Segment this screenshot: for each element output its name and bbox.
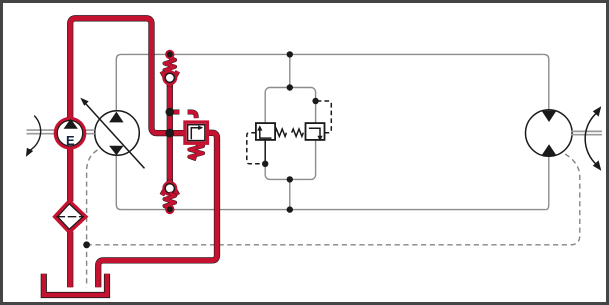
CV2 spring bbox=[165, 193, 175, 208]
check valve CV2 (bottom) bbox=[162, 181, 178, 209]
relief valve RV2 body bbox=[306, 123, 325, 140]
node RV1 pilot tap bbox=[262, 161, 268, 167]
pump group bbox=[26, 98, 145, 169]
node loop top bbox=[287, 84, 293, 90]
CV1 seat bbox=[162, 71, 178, 85]
wire filter line red bbox=[68, 149, 73, 287]
wire relief drain underlay bbox=[98, 133, 217, 287]
wire relief feed red bbox=[170, 131, 186, 136]
node CV2 bottom bbox=[165, 205, 174, 214]
wire pump case drain bbox=[87, 150, 98, 287]
left relief segment black bbox=[264, 140, 266, 164]
charge pump E bbox=[55, 119, 84, 148]
wire top bus left corner down to pump bbox=[116, 54, 121, 111]
motor output shaft bbox=[572, 131, 602, 134]
crossport relief valves block bbox=[247, 51, 331, 213]
tank T1 bbox=[44, 274, 107, 295]
node drain tee bbox=[83, 241, 90, 248]
wire pump bottom to bottom bus bbox=[116, 155, 121, 210]
black underlays bbox=[70, 18, 217, 287]
case drain dashed lines bbox=[87, 150, 580, 287]
wire charge supply underlay bbox=[70, 18, 170, 133]
filter F1 bbox=[55, 201, 86, 232]
wire charge vertical red bbox=[167, 85, 172, 182]
wire top bus right corner down to motor bbox=[544, 54, 549, 110]
shaft between pumps bbox=[85, 130, 95, 134]
motor rotation arrows bbox=[585, 113, 597, 166]
wire drain bottom run bbox=[87, 153, 580, 245]
motor M1 top triangle bbox=[542, 111, 557, 122]
CRV pilot dashed red bbox=[172, 112, 197, 121]
charge pump triangle bbox=[64, 119, 78, 129]
pump P1 top triangle bbox=[109, 112, 124, 123]
input shaft bbox=[27, 130, 56, 134]
CV1 poppet ball bbox=[164, 72, 176, 84]
CV2 seat bbox=[162, 181, 178, 195]
relief block loop bbox=[265, 88, 315, 180]
node pilot tap bbox=[166, 108, 175, 117]
wire charge supply red bbox=[70, 18, 170, 133]
wire top bus A bbox=[121, 53, 544, 55]
node RV2 pilot tap bbox=[312, 98, 318, 104]
check valve CV1 (top) bbox=[162, 57, 178, 85]
RV1 pilot line dashed bbox=[247, 133, 263, 164]
wire bottom bus B bbox=[121, 209, 546, 211]
node charge junction bbox=[166, 129, 175, 138]
wire bottom bus right corner up to motor bbox=[546, 156, 549, 209]
RV2 pilot line dashed bbox=[319, 101, 332, 133]
motor M1 circle bbox=[526, 110, 573, 157]
motor group bbox=[526, 106, 602, 170]
CRV body bbox=[185, 122, 207, 143]
pump P1 bottom triangle bbox=[109, 146, 124, 155]
motor M1 bottom triangle bbox=[542, 144, 557, 155]
relief valve RV1 body bbox=[256, 123, 275, 140]
charge relief valve CRV bbox=[166, 108, 208, 160]
CV2 poppet ball bbox=[164, 183, 176, 195]
relief valve RV2 spring bbox=[292, 129, 304, 136]
wire relief feed underlay bbox=[170, 130, 186, 136]
svg-text:E: E bbox=[66, 133, 75, 148]
pump P1 variable displacement arrow bbox=[84, 101, 145, 168]
CRV arrow bbox=[191, 128, 199, 140]
node loop bottom bbox=[287, 176, 293, 182]
node bottom bus tap bbox=[287, 206, 293, 212]
filter dashed element bbox=[57, 216, 85, 218]
relief valve RV2 arrow bbox=[309, 128, 320, 138]
node top bus tap bbox=[287, 51, 293, 57]
junction dots on buses (red ringed) bbox=[83, 50, 174, 249]
pump P1 circle bbox=[95, 111, 140, 156]
main loop gray lines bbox=[116, 54, 549, 209]
input rotation arrow bbox=[30, 116, 41, 151]
wire filter line underlay bbox=[67, 149, 73, 287]
node CV1 top bbox=[165, 50, 174, 59]
relief valve RV1 spring bbox=[275, 129, 287, 136]
wire charge vertical underlay bbox=[167, 85, 173, 182]
relief valve RV1 arrow bbox=[260, 129, 272, 139]
wire relief drain red bbox=[98, 133, 217, 287]
wire center tap top bbox=[289, 54, 291, 87]
wire center tap bottom bbox=[289, 179, 291, 209]
CRV spring bbox=[189, 143, 203, 159]
